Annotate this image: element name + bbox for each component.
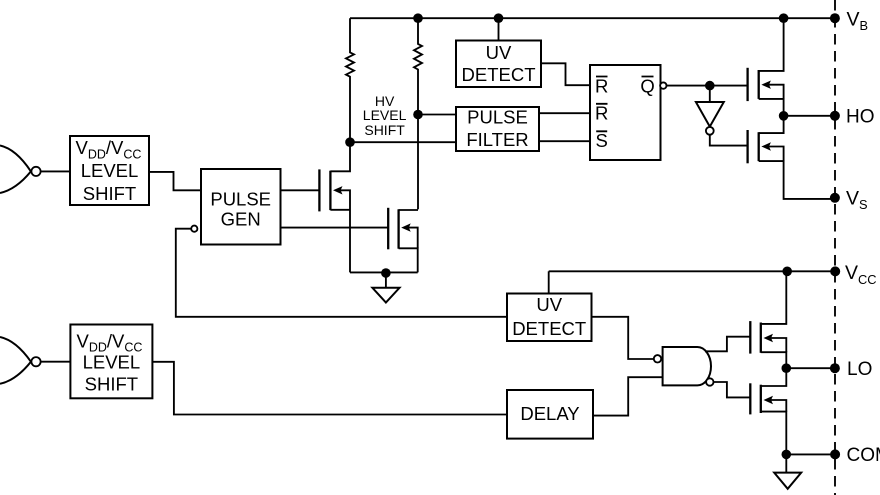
wire UV detect 2 out to NAND input [592,317,654,359]
terminal dots [830,13,840,459]
wire COM node to terminal [786,453,835,455]
svg-text:DETECT: DETECT [512,318,586,339]
box UV DETECT (high side) [456,41,541,88]
svg-text:SHIFT: SHIFT [85,374,138,395]
wire pulse gen out2 to M2 gate [281,227,389,229]
transistor M6 low side lower [750,368,786,454]
transistor M2 HV level shift right [388,208,418,273]
svg-text:FILTER: FILTER [466,129,528,150]
transistor M4 high side lower [748,116,835,199]
svg-text:DELAY: DELAY [520,403,579,424]
svg-text:COM: COM [847,445,880,466]
bubble pulse gen inhibit input [191,226,197,232]
NAND gate U2 [654,347,714,386]
wire VB rail to UV detect 1 [498,18,500,40]
ground symbol 1 [372,272,399,302]
svg-text:PULSE: PULSE [467,107,528,128]
wire tap node B to pulse filter lower input [350,141,456,143]
svg-text:PULSE: PULSE [210,188,271,209]
box PULSE GEN [201,169,281,245]
wire HO node to terminal [784,115,835,117]
wire Q output to M3 gate [667,85,748,87]
svg-text:R: R [595,75,608,96]
terminal labels [845,8,880,466]
wire tap node A to pulse filter upper input [418,114,456,116]
top VB rail [350,17,835,19]
svg-text:LEVEL: LEVEL [81,160,139,181]
svg-text:VCC: VCC [845,262,877,287]
wire node to inverter [709,86,711,102]
wire pulse gen out1 to M1 gate [281,189,320,191]
wire NAND out2 to M6 gate [714,382,751,397]
inverter U1 [696,102,724,135]
ground rail (HV shift) [350,271,418,273]
svg-text:GEN: GEN [221,209,261,230]
svg-text:HO: HO [846,107,875,128]
wire UV detect 2 to VCC rail [548,271,550,293]
resistor R2 [414,18,422,114]
wire UV detect 1 to latch R input [541,63,590,85]
svg-text:S: S [596,130,608,151]
wire pulse filter out1 to latch [539,112,590,114]
resistor R1 [346,18,354,142]
box VDD/VCC LEVEL SHIFT (top) [70,136,149,205]
wire level shift 2 to delay [152,362,507,415]
wire delay out to NAND input [593,377,663,415]
box DELAY [507,390,593,439]
box UV DETECT (low side) [507,294,592,342]
wire level shift 1 to pulse gen [149,172,201,190]
wire pulse filter out2 to latch [539,140,590,142]
IC boundary dashed line [834,0,836,495]
svg-text:LEVEL: LEVEL [363,107,407,123]
svg-text:DETECT: DETECT [462,64,536,85]
bubble latch Q output [660,82,666,88]
transistor M3 high side upper [748,18,784,116]
svg-text:VS: VS [846,188,868,213]
svg-text:LO: LO [847,359,872,380]
ground symbol 2 [774,454,801,488]
svg-text:UV: UV [536,294,562,315]
svg-text:VB: VB [847,8,869,33]
VCC rail [549,270,836,272]
wire R2 node down to M2 drain [417,115,419,210]
input gate (top, HIN) [0,146,41,194]
transistor M1 HV level shift left [319,142,350,272]
transistor M5 low side upper [750,271,786,368]
box VDD/VCC LEVEL SHIFT (bottom) [70,325,152,399]
wire NAND out1 to M5 gate [705,337,750,352]
wire LO node to terminal [786,367,835,369]
wire gate2 to level shift 2 [41,361,71,363]
wire inverter out to M4 gate [710,135,748,146]
svg-text:LEVEL: LEVEL [83,351,141,372]
svg-text:UV: UV [486,42,512,63]
HV LEVEL SHIFT label [363,93,407,138]
wire pulse gen inhibit to UV detect 2 [176,229,507,317]
box PULSE FILTER [456,107,539,152]
latch box with R R S inputs and Q output [590,65,661,160]
svg-text:R: R [595,103,608,124]
wire gate1 to level shift 1 [41,170,70,172]
svg-text:Q: Q [640,75,654,96]
input gate (bottom, LIN) [0,337,41,384]
svg-text:SHIFT: SHIFT [83,183,136,204]
svg-text:SHIFT: SHIFT [364,122,405,138]
